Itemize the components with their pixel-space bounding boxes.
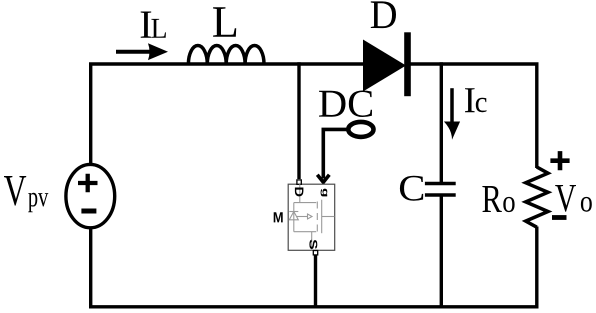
pin label S [309,240,317,249]
label C [400,176,423,201]
label M [274,212,283,222]
resistor Ro zigzag [526,167,548,227]
diode D cathode bar [404,32,411,96]
capacitor C top plate [425,182,456,186]
pin S square [313,251,317,255]
label DC [319,91,372,118]
wire mosfet source to bottom [314,255,317,307]
pin D square [297,180,301,184]
wire gate drive from ellipse [323,129,348,178]
label Vo [555,185,576,212]
wire top-left loop: top wire to diode anode, left vertical down to source top [91,64,363,164]
diode D triangle [363,40,406,92]
arrow IL current [116,43,168,60]
internal symbol [289,184,334,250]
mosfet block M [288,180,335,255]
wire capacitor branch lower [440,196,443,307]
label IL [141,12,152,38]
label Vpv [4,176,26,206]
label Ic [465,88,475,112]
label L [213,7,236,36]
source plus sign [78,174,98,192]
pin label D [295,188,304,197]
source Vpv ellipse [66,164,115,227]
wire top-right: from diode cathode to right vertical down to resistor top [408,64,537,168]
source minus sign [81,209,96,214]
plus sign output [550,151,569,170]
wire mosfet drain branch [297,62,300,179]
minus sign output [552,215,567,220]
label Ro [482,186,501,212]
pin label g [321,189,328,197]
capacitor C bottom plate [425,193,456,197]
arrow Ic current [444,88,460,140]
gate arrowhead chevron [317,175,329,183]
wire bottom loop: left vertical below source, bottom wire, right vertical up to resistor bottom [91,227,537,307]
label D [371,1,396,28]
inductor L [188,45,264,64]
wire capacitor branch upper [440,62,443,183]
DC source ellipse [348,122,373,137]
